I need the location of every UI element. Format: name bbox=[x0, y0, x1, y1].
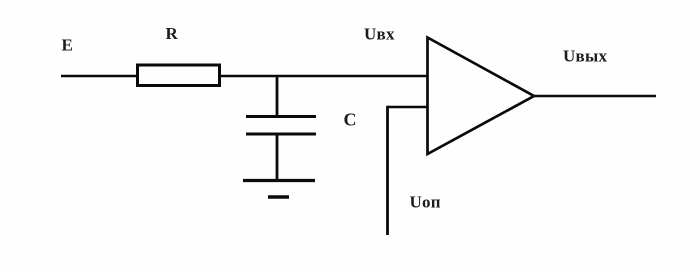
ground: short bar bbox=[268, 195, 289, 199]
svg-text:E: E bbox=[62, 36, 74, 55]
svg-text:R: R bbox=[166, 24, 179, 43]
resistor R bbox=[138, 65, 220, 86]
svg-text:Uоп: Uоп bbox=[410, 193, 441, 212]
op-amp U1 (comparator triangle) bbox=[428, 38, 535, 155]
wire: capacitor to ground bbox=[276, 134, 279, 181]
capacitor C bottom plate bbox=[246, 133, 316, 136]
svg-text:Uвых: Uвых bbox=[563, 47, 607, 66]
wire: Uop vertical bbox=[386, 106, 389, 235]
svg-text:Uвх: Uвх bbox=[364, 25, 395, 44]
wire: E source to resistor bbox=[61, 75, 137, 78]
wire: Uop horizontal into comparator lower input bbox=[388, 106, 428, 109]
capacitor C top plate bbox=[246, 115, 316, 118]
svg-text:C: C bbox=[344, 110, 357, 130]
wire: comparator output bbox=[533, 95, 656, 98]
ground: long bar bbox=[243, 179, 315, 182]
wire: resistor to comparator input (node junction included) bbox=[220, 75, 428, 78]
node A: junction to capacitor branch bbox=[276, 76, 279, 117]
